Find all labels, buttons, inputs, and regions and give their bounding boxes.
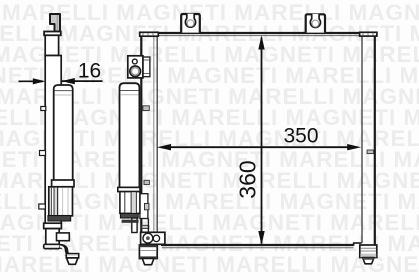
dimension 360: line <box>261 38 263 244</box>
front view: drier valve block <box>120 192 140 214</box>
side view: receiver drier tank <box>54 85 73 182</box>
dimension 16: right arrowhead <box>61 78 75 84</box>
front view: drier neck pipe <box>132 218 137 233</box>
side view: drier block dark bottom band <box>48 216 71 221</box>
side view: weld nub upper <box>41 107 46 111</box>
dimension 350: line <box>170 146 349 148</box>
front view: left tank weld nub lower <box>142 225 149 228</box>
side view: bracket arm <box>66 254 78 258</box>
dimension 16: left arrowhead <box>33 78 46 84</box>
side view: side tab <box>57 233 70 241</box>
front view: inlet fitting block with holes <box>128 56 150 78</box>
front view: right tank weld nub <box>367 150 374 154</box>
svg-text:350: 350 <box>283 125 318 148</box>
svg-text:360: 360 <box>234 160 260 198</box>
side view: mounting bracket S-step <box>60 246 73 256</box>
front view: drier block dark band <box>120 213 138 218</box>
svg-text:MAGNETI MARELLI MAGNETI MARELL: MAGNETI MARELLI MAGNETI MARELLI MAGNETI … <box>0 252 419 277</box>
front view: left tank weld nub upper <box>143 106 149 111</box>
front view: bottom bracket plate with holes <box>141 232 165 244</box>
side view: drier inner seam lines <box>55 90 72 92</box>
front view: drier-to-tank strap edge <box>147 219 149 233</box>
front view: mounting tab 1 <box>181 14 200 33</box>
side view: bracket foot <box>67 258 78 264</box>
dimension 360: bottom arrowhead <box>258 231 264 245</box>
front view: left tank top cap <box>140 32 159 36</box>
dimension 350: right arrowhead <box>347 144 361 150</box>
front view: receiver drier cylinder <box>120 83 140 187</box>
front view: right tank bottom nut <box>360 245 377 264</box>
front view: mounting tab 2 <box>306 14 325 33</box>
front view: drier bottom nut <box>139 245 157 265</box>
front view: right tank top cap <box>360 32 377 36</box>
side view: bottom cap <box>44 244 60 248</box>
front view: core bottom edge <box>162 244 354 246</box>
front view: core top edge <box>157 32 361 34</box>
dimension 16: left extension line <box>19 80 44 82</box>
dimension 350: left arrowhead <box>157 144 171 150</box>
side view: drier valve block <box>49 187 73 216</box>
dimension 360: top arrowhead <box>258 35 264 49</box>
side view: top cap <box>44 32 61 36</box>
svg-text:16: 16 <box>78 60 101 83</box>
front view: drier valve block attach plate <box>140 194 148 219</box>
side view: upper neck <box>45 35 58 55</box>
front view: right header tank <box>361 36 363 244</box>
side view: drier bottom flange <box>52 180 74 187</box>
side view: weld nub lower <box>39 204 46 209</box>
dimension 16: right extension line <box>62 80 103 82</box>
front view: left tank weld nub middle <box>144 180 149 184</box>
front view: drier bottom flange <box>118 187 140 191</box>
side view: lower body section <box>46 229 59 245</box>
front view: drier valve block nub <box>145 204 149 210</box>
side view: condenser core (narrow body) <box>45 56 61 224</box>
side view: inlet pipe fitting (L-shape) <box>50 14 60 32</box>
side view: weld nub middle <box>40 151 46 156</box>
front view: left header tank <box>140 36 142 233</box>
front view: drier neck flange (dark) <box>122 220 139 223</box>
side view: lower collar <box>44 223 62 228</box>
